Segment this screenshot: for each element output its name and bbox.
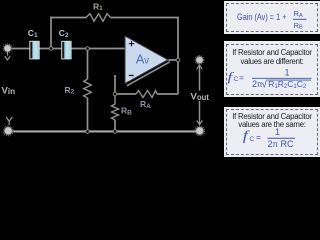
Vout arrow bottom — [197, 120, 203, 125]
ground rail — [11, 130, 197, 132]
wire op-amp output stub — [167, 59, 178, 61]
wire input to C1 — [10, 48, 30, 50]
node A junction — [49, 47, 53, 51]
RB ground junction — [113, 130, 117, 134]
wire Vout lower — [199, 101, 201, 120]
Vin arrow top — [5, 52, 10, 60]
ground-right terminal — [195, 126, 205, 136]
svg-text:Gain (Av) = 1 +: Gain (Av) = 1 + — [237, 12, 287, 22]
svg-text:1: 1 — [285, 68, 290, 78]
svg-text:√: √ — [262, 78, 268, 90]
wire RA left to node — [115, 93, 136, 95]
svg-text:RA: RA — [294, 9, 303, 19]
op-amp U1 — [125, 36, 168, 84]
Vin arrow bottom — [6, 117, 12, 125]
svg-text:=: = — [256, 132, 261, 142]
radical overline — [267, 79, 311, 81]
svg-text:C: C — [250, 136, 255, 143]
node B junction — [86, 47, 90, 51]
formula box 2: fc different values — [224, 41, 320, 97]
wire R2 drop from node B — [87, 49, 89, 80]
wire node A up — [50, 17, 52, 49]
capacitor C1 — [30, 41, 39, 59]
Vout terminal — [195, 56, 204, 65]
Vout arrow top — [197, 65, 203, 69]
gain fraction bar — [293, 18, 307, 20]
wire R1 to feedback corner — [111, 17, 179, 19]
wire feedback drop — [177, 17, 179, 94]
op-amp plus sign — [129, 41, 135, 46]
svg-text:1: 1 — [275, 127, 280, 137]
output node junction — [176, 58, 180, 62]
wire C1 to C2 — [39, 48, 62, 50]
formula box 1: gain — [224, 1, 320, 34]
resistor R2 — [84, 79, 92, 98]
wire C2 to op-amp + — [71, 48, 126, 50]
RA-RB node junction — [113, 92, 117, 96]
wire Vout upper — [199, 69, 201, 91]
R2 ground junction — [86, 130, 90, 134]
wire inverting riser — [114, 75, 116, 94]
wire RB to ground rail — [114, 120, 116, 132]
op-amp U1 shadow — [127, 62, 170, 86]
wire to R1 — [50, 17, 86, 19]
resistor RA — [136, 91, 157, 98]
blue formulas overlay SVG — [0, 0, 320, 157]
op-amp minus sign — [129, 75, 134, 77]
input terminal — [3, 44, 12, 53]
svg-text:RB: RB — [294, 21, 303, 31]
resistor R1 — [86, 14, 111, 22]
svg-text:2π RC: 2π RC — [268, 139, 295, 149]
formula box 3: fc same values — [224, 107, 320, 158]
resistor RB — [112, 94, 119, 120]
fraction bar — [252, 77, 312, 79]
capacitor C2 — [62, 41, 71, 59]
svg-text:=: = — [239, 73, 244, 83]
wire R2 to ground rail — [87, 98, 89, 132]
circuit schematic SVG — [0, 0, 320, 157]
fraction bar — [268, 137, 296, 139]
ground-left terminal — [3, 126, 13, 136]
wire RA right — [157, 93, 178, 95]
